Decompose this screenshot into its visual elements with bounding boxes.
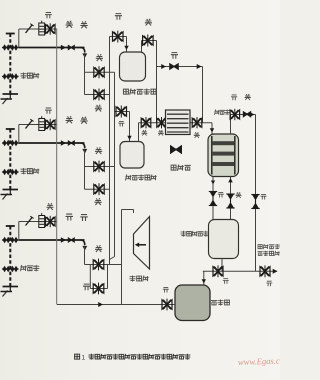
wire W2 flowline <box>19 142 85 144</box>
wire meter sep inlet <box>110 37 129 53</box>
svg-text:www.Egas.cn: www.Egas.cn <box>238 355 280 367</box>
wire prod sep feed <box>115 112 132 142</box>
wire manifold branch 4 <box>85 188 110 190</box>
wire manifold branch 6 <box>90 288 107 290</box>
wire right header <box>255 115 257 272</box>
label W3 bypass state <box>47 203 54 210</box>
wire W1 elbow down <box>81 48 88 59</box>
label W1 bypass state <box>45 13 52 19</box>
svg-text:1: 1 <box>82 355 86 362</box>
wellhead W3 christmas tree <box>1 226 19 297</box>
gate valve W1 bypass <box>46 23 56 34</box>
vessel metering separator <box>120 52 146 81</box>
flow arrow W2 main <box>61 140 66 145</box>
choke regulator W3 <box>39 213 45 227</box>
wire W3 flowline <box>19 239 85 241</box>
wire W2 elbow down <box>81 143 88 154</box>
gate valve filter inlet <box>162 299 172 311</box>
wire bottom manifold <box>57 302 175 307</box>
wire manifold branch 3 <box>85 166 115 168</box>
vessel heat exchanger <box>208 134 239 177</box>
air cooler fan <box>170 145 182 154</box>
choke regulator W1 <box>39 21 45 35</box>
wire manifold B <box>109 37 111 265</box>
gate valve hx outlet <box>230 109 240 120</box>
wire manifold branch 5 <box>85 264 122 266</box>
check valve W3 bypass <box>26 216 34 225</box>
label cooler v2 closed <box>158 130 164 136</box>
wire W1 flowline <box>19 47 85 49</box>
label branch 5 state <box>95 245 102 252</box>
gate valve cooler 1 <box>141 117 151 128</box>
label lt right closed <box>236 192 242 198</box>
wellhead W2 christmas tree <box>1 129 19 200</box>
label branch 3 state <box>95 147 102 154</box>
gate valve branch 6 <box>93 283 104 295</box>
label branch 2 state <box>95 105 102 112</box>
label cooler bypass open <box>171 53 178 59</box>
wire cooler line <box>139 123 215 134</box>
valve W3 wing <box>68 237 75 243</box>
gate valve meter inlet <box>113 31 124 43</box>
wire manifold branch 1 <box>85 71 115 73</box>
label hx v1 open <box>231 95 237 100</box>
label cooler v1 closed <box>142 130 148 136</box>
caption figure title <box>75 354 191 362</box>
label well W2 <box>21 168 40 174</box>
label right header open <box>261 194 267 199</box>
wire riser to cooler line <box>156 41 158 123</box>
wire production header vertical <box>56 29 58 305</box>
gate valve prod feed <box>116 106 127 118</box>
wire exchanger top outlet <box>231 112 256 134</box>
gate valve branch 3 <box>94 161 104 173</box>
check valve W2 bypass <box>26 119 34 128</box>
label cooler v3 closed <box>194 132 200 138</box>
label filter <box>211 300 229 306</box>
globe valve lt left <box>209 192 217 206</box>
valve W2 wing <box>68 140 75 146</box>
valve W1 wing <box>68 45 75 51</box>
labels W3 main valves <box>66 214 88 221</box>
gate valve W2 bypass <box>46 119 56 130</box>
label lt left open <box>218 192 224 197</box>
wire manifold jumpers <box>85 53 108 289</box>
globe valve lt right <box>226 194 234 208</box>
label sales2 open <box>266 281 272 286</box>
air cooler coil <box>166 110 191 135</box>
choke regulator W2 <box>39 116 45 130</box>
label meter outlet closed <box>145 19 152 26</box>
wire hx to lt-sep left <box>211 177 215 220</box>
label production separator <box>126 175 157 181</box>
label filter inlet open <box>163 287 169 292</box>
label heat exchanger <box>215 110 230 115</box>
label sales1 open <box>223 279 229 284</box>
gate valve W3 bypass <box>46 216 56 227</box>
gate valve branch 4 <box>94 183 104 195</box>
gate valve sales 1 <box>213 265 223 277</box>
vessel filter <box>175 285 210 321</box>
gate valve cooler 2 <box>157 117 166 128</box>
wellhead W1 christmas tree <box>1 34 19 105</box>
labels W2 main valves <box>66 116 88 124</box>
watermark <box>238 355 284 367</box>
wire W1 choke bypass <box>19 29 57 48</box>
label compressor <box>130 276 149 282</box>
vessel production separator <box>120 142 144 169</box>
label air cooler <box>171 165 191 171</box>
gate valve branch 1 <box>94 66 104 78</box>
wire prod sep outlet <box>138 123 140 142</box>
wire W2 choke bypass <box>19 125 57 144</box>
gate valve branch 5 <box>93 259 104 271</box>
wire hx to lt-sep right <box>228 177 233 220</box>
valve cooler bypass <box>169 63 179 70</box>
wire lt sep bottom stub <box>221 259 223 272</box>
label well W3 <box>21 265 40 271</box>
gate valve cooler 3 <box>192 117 202 128</box>
flow arrow W3 main <box>61 237 66 242</box>
label well W1 <box>21 73 40 79</box>
label prod feed open <box>118 121 124 126</box>
flow arrow W1 main <box>61 45 66 50</box>
label low temp separator <box>181 231 209 237</box>
labels W1 main valves <box>66 21 88 29</box>
label destination two rows <box>258 244 280 256</box>
check valve W1 bypass <box>26 24 34 33</box>
valve hx bowtie <box>243 111 251 118</box>
gate valve branch 2 <box>94 89 104 101</box>
compressor body <box>134 217 150 270</box>
wire cooler bypass top <box>157 64 203 123</box>
wire W3 elbow down <box>81 240 88 251</box>
vessel low temperature separator <box>209 220 239 259</box>
wire manifold branch 2 <box>85 94 110 96</box>
label metering separator <box>123 89 156 95</box>
wire manifold C <box>110 72 115 259</box>
wire sales line <box>203 269 278 274</box>
label branch 4 state <box>95 198 102 205</box>
wire meter sep outlet <box>142 41 157 53</box>
wire drop to filter top <box>202 271 206 285</box>
label branch 6 state <box>83 284 90 290</box>
gate valve meter outlet <box>143 35 154 47</box>
label meter inlet open <box>115 14 122 20</box>
wire compressor drop <box>122 210 134 305</box>
label W2 bypass state <box>45 108 52 114</box>
wire W3 choke bypass <box>19 222 57 241</box>
label branch 1 state <box>96 54 103 61</box>
gate valve sales 2 <box>260 265 270 277</box>
label hx v2 closed <box>245 94 251 100</box>
globe valve right header <box>251 195 259 209</box>
